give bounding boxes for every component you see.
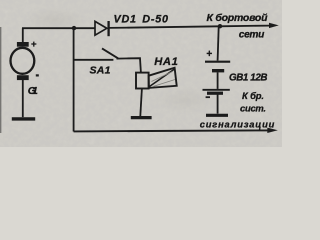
paper background (0, 0, 282, 147)
sounder HA1 body (136, 73, 149, 89)
wire: top bus from G1 to diode anode (22, 27, 95, 29)
wire: switch to HA1 corner (117, 58, 141, 72)
wire: switch branch left (74, 59, 114, 61)
svg-text:К бортовой: К бортовой (207, 12, 269, 24)
svg-text:+: + (31, 39, 37, 50)
sounder HA1 horn (149, 68, 177, 88)
svg-text:HA1: HA1 (154, 56, 178, 68)
diode VD1 (95, 21, 109, 36)
arrow to onboard net (269, 23, 279, 28)
svg-text:К бр.: К бр. (242, 90, 264, 101)
svg-text:сист.: сист. (240, 102, 266, 113)
svg-text:G1: G1 (28, 85, 38, 97)
svg-text:сети: сети (239, 29, 265, 40)
ground: chassis bar under battery GB1 (206, 114, 228, 117)
arrow to alarm system (267, 128, 278, 133)
svg-text:+: + (206, 49, 212, 60)
switch SA1 blade (102, 48, 118, 58)
node: junction battery top (218, 24, 222, 28)
G1 minus sign (36, 74, 39, 76)
svg-text:SA1: SA1 (90, 64, 111, 76)
battery minus sign (206, 96, 210, 98)
wire: left vertical bus (73, 28, 75, 132)
wire: top bus diode cathode to right arrow (110, 26, 270, 28)
generator G1 (11, 42, 35, 80)
ground: chassis bar under G1 (12, 117, 35, 120)
battery GB1 (203, 62, 231, 93)
wire: HA1 to ground (140, 89, 142, 117)
wire: battery top lead (218, 26, 219, 60)
wire: G1 top lead (22, 28, 24, 42)
ground: chassis bar under HA1 (131, 116, 152, 119)
svg-text:сигнализации: сигнализации (200, 119, 275, 129)
wire: bottom bus to alarm arrow (74, 130, 268, 131)
svg-text:GB1 12В: GB1 12В (229, 72, 268, 83)
svg-text:VD1 D-50: VD1 D-50 (114, 14, 169, 26)
node: junction top-left (72, 26, 76, 30)
scan edge artifact left (0, 27, 2, 133)
wire: G1 bottom lead (22, 80, 24, 117)
wire: battery negative lead to ground (217, 95, 219, 114)
